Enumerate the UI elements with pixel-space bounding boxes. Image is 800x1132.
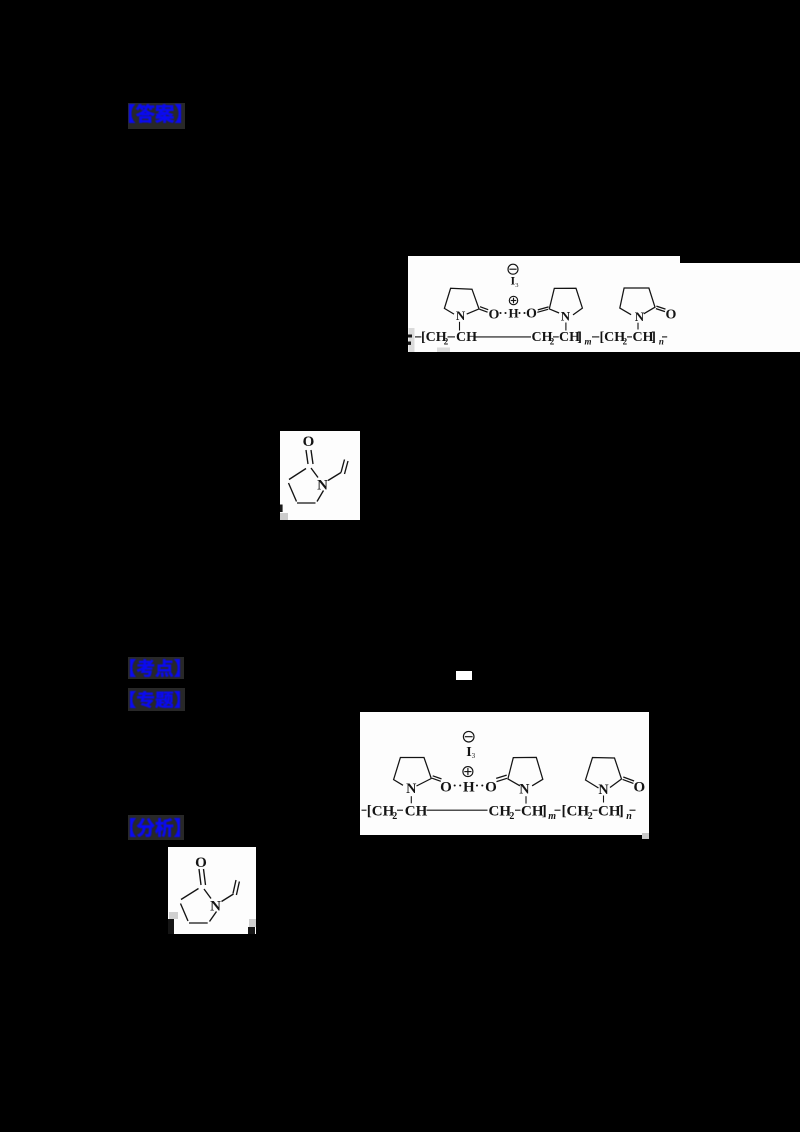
svg-text:2: 2 — [392, 811, 397, 822]
svg-text:O: O — [633, 779, 645, 795]
structure image 3: N-vinylpyrrolidone monomer — [280, 431, 360, 520]
N-CH bond ring 2 — [565, 323, 567, 331]
vinyl C=C double bond — [233, 880, 239, 895]
triiodide I3 label — [510, 274, 518, 290]
polymer backbone chain — [415, 330, 667, 347]
svg-text:N: N — [406, 781, 417, 797]
bridging H+ atom — [462, 779, 474, 795]
grey artifact square right — [249, 919, 256, 927]
grey artifact under subscript — [437, 348, 450, 353]
label highlight box 分析 — [128, 815, 184, 840]
svg-text:[CH: [CH — [561, 803, 589, 819]
grey artifact square bottom-left — [280, 513, 288, 520]
label highlight box 答案 — [128, 103, 185, 129]
structure image 2: povidone-iodine polymer (analysis) — [360, 712, 649, 835]
grey artifact strip at left edge — [409, 328, 415, 352]
blue label 【分析】 — [130, 818, 180, 837]
grey artifact square below structure 2 — [642, 833, 649, 839]
svg-text:3: 3 — [471, 752, 475, 760]
pyrrolidone ring — [289, 468, 329, 503]
structure image 4: N-vinylpyrrolidone monomer (analysis) — [168, 847, 256, 934]
svg-text:O: O — [485, 779, 497, 795]
svg-text:O: O — [303, 434, 315, 450]
pyrrolidone ring 3 — [585, 757, 621, 797]
small white inline formula image on 考点 line — [456, 671, 472, 680]
proton charge circle (plus) — [509, 296, 517, 304]
svg-text:O: O — [195, 855, 207, 871]
C=O double bond ring 2 — [537, 307, 548, 312]
C=O double bond ring 3 — [622, 777, 634, 783]
svg-text:N: N — [210, 899, 221, 915]
pyrrolidone ring 2 — [549, 288, 582, 323]
blue label 【专题】 — [130, 691, 180, 708]
C=O double bond ring 1 — [479, 307, 488, 313]
cropped text glyph at left edge — [408, 335, 412, 338]
svg-text:]: ] — [577, 330, 582, 345]
svg-text:]: ] — [618, 803, 623, 819]
svg-text:H: H — [462, 779, 474, 795]
N-vinyl bond — [328, 473, 341, 481]
svg-text:2: 2 — [623, 337, 628, 347]
svg-text:[CH: [CH — [600, 330, 626, 345]
C=O double bond — [306, 450, 313, 464]
svg-text:n: n — [626, 811, 632, 822]
carbonyl O of ring 2 — [485, 779, 497, 795]
proton charge circle (plus) — [462, 766, 472, 776]
svg-text:H: H — [508, 305, 518, 320]
svg-text:O: O — [666, 307, 677, 322]
blue label 【考点】 — [130, 659, 180, 677]
svg-text:2: 2 — [509, 811, 514, 822]
label highlight box 考点 — [128, 657, 184, 679]
svg-text:2: 2 — [550, 337, 555, 347]
pyrrolidone ring 1 — [444, 288, 479, 323]
svg-text:m: m — [548, 811, 556, 822]
C=O double bond ring 1 — [432, 775, 442, 781]
carbonyl O — [195, 855, 207, 871]
pyrrolidone ring 3 — [620, 288, 655, 324]
bridging H+ atom — [508, 305, 518, 320]
grey artifact square left — [169, 912, 178, 919]
label highlight box 专题 — [128, 688, 185, 711]
svg-text:[CH: [CH — [366, 803, 394, 819]
N-CH bond ring 1 — [459, 322, 461, 331]
N-CH bond ring 3 — [602, 795, 604, 802]
svg-text:N: N — [317, 478, 328, 494]
polymer backbone chain — [361, 803, 635, 822]
svg-text:n: n — [659, 337, 664, 347]
svg-text:2: 2 — [444, 337, 449, 347]
svg-text:N: N — [456, 308, 466, 323]
N-vinyl bond — [222, 894, 234, 902]
svg-text:m: m — [585, 337, 592, 347]
svg-text:CH: CH — [598, 803, 621, 819]
N-CH bond ring 2 — [525, 796, 527, 803]
svg-text:N: N — [561, 309, 571, 324]
carbonyl O of ring 1 — [440, 779, 452, 795]
svg-text:3: 3 — [515, 282, 518, 289]
hydrogen-bond dots — [453, 784, 483, 786]
svg-text:2: 2 — [587, 811, 592, 822]
hydrogen-bond dots — [499, 312, 525, 314]
svg-text:O: O — [440, 779, 452, 795]
carbonyl O of ring 2 — [526, 307, 537, 322]
C=O double bond — [199, 869, 206, 885]
carbonyl O — [303, 434, 315, 450]
svg-text:O: O — [526, 307, 537, 322]
N-CH bond ring 1 — [410, 796, 412, 803]
carbonyl O of ring 1 — [489, 307, 500, 322]
blue label 【答案】 — [129, 104, 181, 123]
pyrrolidone ring 2 — [507, 757, 542, 797]
svg-text:]: ] — [541, 803, 546, 819]
C=O double bond ring 2 — [496, 775, 507, 782]
triiodide charge circle (minus) — [508, 264, 518, 274]
pyrrolidone ring 1 — [393, 757, 431, 797]
svg-text:CH: CH — [521, 803, 544, 819]
svg-text:CH: CH — [488, 803, 511, 819]
carbonyl O of ring 3 — [666, 307, 677, 322]
svg-text:N: N — [519, 781, 530, 797]
triiodide charge circle (minus) — [463, 731, 474, 742]
N-CH bond ring 3 — [637, 323, 639, 330]
pyrrolidone ring — [181, 889, 222, 924]
vinyl C=C double bond — [341, 460, 348, 475]
svg-text:]: ] — [651, 330, 656, 345]
svg-text:N: N — [635, 309, 645, 324]
cropped glyph bottom-left — [168, 919, 174, 934]
carbonyl O of ring 3 — [633, 779, 645, 795]
svg-text:CH: CH — [404, 803, 427, 819]
triiodide I3 label — [466, 745, 475, 760]
svg-text:O: O — [489, 307, 500, 322]
structure image 1: povidone-iodine polymer — [408, 256, 680, 352]
svg-text:CH: CH — [456, 330, 477, 345]
cropped glyph bottom-right — [248, 927, 255, 934]
cropped glyph at bottom-left — [280, 505, 283, 513]
empty white image right of structure 1 — [680, 263, 800, 352]
C=O double bond ring 3 — [656, 306, 666, 312]
